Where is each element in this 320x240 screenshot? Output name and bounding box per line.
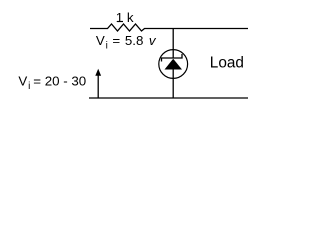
svg-text:v: v [149,33,157,48]
svg-text:=: = [112,33,120,48]
svg-text:5.8: 5.8 [125,33,144,48]
svg-text:Vi = 20 - 30: Vi = 20 - 30 [18,73,86,91]
svg-text:Load: Load [210,54,244,71]
svg-text:Vi: Vi [96,33,108,51]
svg-text:1 k: 1 k [116,10,134,25]
